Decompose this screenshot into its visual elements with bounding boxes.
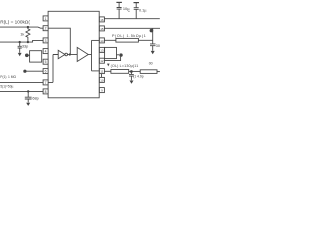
pin 2 box [43, 26, 48, 31]
ground GND1 [18, 53, 22, 56]
node junction T1 output [69, 53, 71, 55]
pin 14 box [99, 38, 104, 43]
svg-text:1k: 1k [20, 32, 24, 37]
wire to pin 11 internal [92, 70, 100, 72]
svg-text:4: 4 [45, 50, 47, 54]
wire stub pins 11-10 [101, 74, 103, 78]
ground GND3 [151, 51, 155, 54]
svg-text:14: 14 [100, 39, 104, 43]
wire R5 out [157, 71, 160, 73]
wire W3 to pin3 [0, 40, 43, 42]
svg-text:+: + [128, 9, 130, 13]
buffer A2 triangle [77, 47, 88, 61]
svg-text:1 MΩ: 1 MΩ [8, 75, 16, 79]
label VOL row triangle [107, 64, 110, 67]
svg-text:0.1µ: 0.1µ [139, 8, 147, 12]
capacitor C1 33p [18, 42, 22, 53]
node W1 junction [27, 26, 29, 28]
wire W8 to pin8 [0, 90, 43, 92]
svg-text:33p: 33p [22, 44, 28, 48]
resistor R3 box [116, 38, 138, 42]
resistor R5 box [140, 70, 157, 74]
svg-text:12: 12 [100, 59, 104, 63]
capacitor C5 68p [25, 91, 32, 102]
wire W6 to pin6 [25, 70, 43, 72]
pin 7 box [43, 80, 48, 85]
ground GND5 [26, 103, 30, 106]
svg-text:13: 13 [100, 48, 104, 52]
wire vertical to C6 [152, 28, 154, 43]
supply bar V+ right [134, 2, 140, 4]
capacitor C3 0.1u [134, 3, 139, 19]
svg-text:5: 5 [45, 60, 47, 64]
wire X2 wiper stub [117, 54, 120, 56]
svg-text:30: 30 [156, 44, 160, 48]
resistor R4 box [111, 70, 129, 74]
svg-text:R(L) = 100kΩ(: R(L) = 100kΩ( [0, 20, 30, 25]
resistor R1 1k zigzag [26, 27, 30, 42]
svg-text:6: 6 [45, 70, 47, 74]
wire bubble to buffer A2 [68, 54, 78, 56]
pin 10 box [99, 77, 104, 82]
pin 6 box [43, 69, 48, 74]
capacitor C2 10u [117, 2, 122, 18]
wire W1 input to pin2 [0, 27, 43, 28]
capacitor C4 [129, 72, 134, 81]
node R1 bottom junction [27, 41, 29, 43]
svg-text:10: 10 [100, 78, 104, 82]
svg-text:68p: 68p [32, 96, 38, 100]
node X2 wiper dot [119, 53, 122, 56]
node W15 junction dot [150, 29, 154, 33]
pin 8 box [43, 89, 48, 94]
pin 12 box [99, 58, 104, 63]
svg-text:16: 16 [100, 18, 104, 22]
trimmer X1 box pins 4-5 [30, 51, 42, 62]
node input terminal pin6 [23, 70, 26, 73]
node capacitor C1 tap [19, 41, 21, 43]
wire A2 output [88, 54, 91, 56]
wire X1 dot stub [27, 54, 30, 56]
svg-text:P(1): P(1) [0, 75, 6, 79]
svg-text:11: 11 [100, 70, 103, 74]
pin 13 box [99, 47, 104, 52]
inverter A1 bubble [65, 53, 68, 56]
svg-text:(OL) L=130µ(11: (OL) L=130µ(11 [111, 64, 139, 68]
ground GND4 [130, 81, 134, 84]
svg-text:1: 1 [45, 17, 47, 21]
pin 3 box [43, 38, 48, 43]
capacitor C6 [150, 44, 156, 51]
node X1 terminal dot [25, 54, 29, 58]
svg-text:3: 3 [45, 39, 47, 43]
svg-text:8: 8 [45, 90, 47, 94]
node C5 tap [27, 90, 29, 92]
svg-text:7: 7 [45, 81, 47, 85]
wire output bus vertical [91, 40, 93, 71]
node load junction [130, 70, 133, 73]
inverter A1 triangle [58, 50, 65, 58]
wire VCC rail from pin16 [104, 18, 159, 20]
pin 16 box [99, 17, 104, 22]
pin 9 box [99, 88, 104, 93]
pin 4 box [43, 49, 48, 54]
svg-text:15: 15 [100, 27, 104, 31]
svg-text:00: 00 [149, 62, 153, 66]
pin 15 box [99, 26, 104, 31]
wire W7 to pin7 [0, 81, 43, 83]
wire R4 to junction [129, 70, 141, 72]
pin 11 box [99, 69, 104, 74]
svg-text:5(1)=50µ: 5(1)=50µ [0, 84, 13, 88]
IC U1 body [48, 11, 99, 98]
pin 5 box [43, 59, 48, 64]
wire W11 from pin11 [104, 70, 111, 72]
wire to pin 14 internal [92, 39, 100, 41]
wire W12 from pin12 [104, 57, 120, 61]
trimmer X2 box pin 13 [105, 47, 117, 58]
wire pin2 internal [48, 28, 70, 54]
wire W14 from pin14 [104, 39, 152, 41]
pin 1 box [43, 16, 48, 21]
svg-text:(1 4.9p: (1 4.9p [133, 74, 143, 78]
wire W15 from pin15 [104, 27, 160, 29]
wire T1 input internal from pin7 [48, 55, 58, 83]
svg-text:P(OL) 1.5kΩµ(1: P(OL) 1.5kΩµ(1 [112, 34, 146, 38]
supply bar V+ left [116, 1, 122, 3]
svg-text:2: 2 [45, 27, 47, 31]
